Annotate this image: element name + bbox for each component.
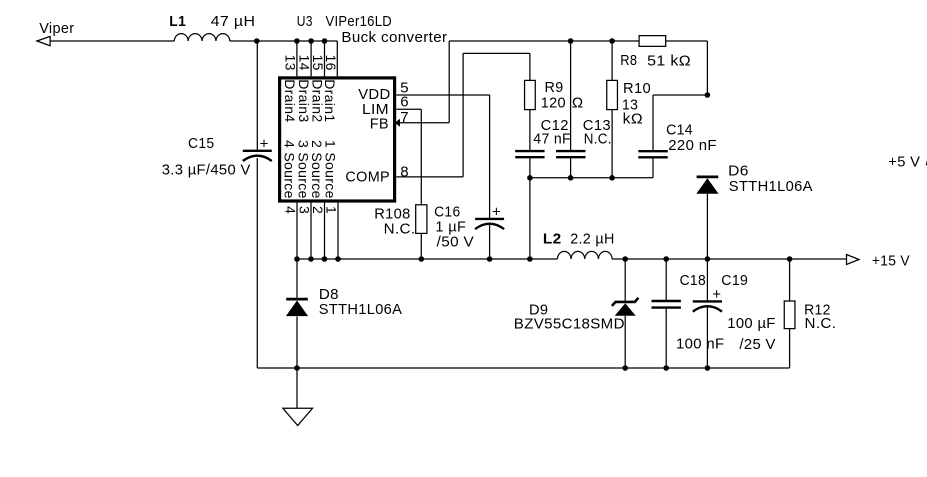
capacitor C13 [556,151,585,157]
svg-text:C18: C18 [680,272,706,289]
node junction C13 tap [568,38,574,44]
label R8 [620,52,637,69]
capacitor C14 [638,151,667,157]
wire pin13 drain4 [296,41,298,76]
svg-text:/25 V: /25 V [739,336,775,353]
label R8 value [647,52,691,69]
label C15 [188,135,214,152]
svg-text:kΩ: kΩ [623,111,643,128]
wire COMP to R9 [529,53,531,80]
resistor R9 [525,80,536,109]
label VIPer16LD [326,13,393,30]
wire drain node down to C15 [256,41,258,150]
wire R108 to source rail [420,233,422,259]
pin name Drain4 [282,79,298,122]
svg-text:D6: D6 [728,163,749,180]
wire D9 to ground rail [624,316,626,368]
wire C18 to ground rail [665,309,667,368]
label R10 [623,80,651,97]
wire LIM down to R108 [420,109,422,205]
label D9 [529,301,548,318]
resistor R12 [784,301,795,329]
label L1 value 47 uH [211,13,256,30]
diode D6 [696,177,718,194]
svg-text:+15 V: +15 V [872,252,910,269]
pin number 4 [283,206,299,214]
svg-text:L2: L2 [543,230,562,247]
wire R12 to ground rail [789,329,791,368]
label C13 N.C. [584,130,612,147]
wire +15V rail [612,258,846,260]
pin number 2 [310,206,326,214]
node junction R10 mid [609,175,615,181]
svg-text:51 kΩ: 51 kΩ [647,52,691,69]
wire C12 to mid rail [529,158,531,178]
wire pin7 FB [396,122,449,124]
wire pin3 source3 [310,203,312,259]
resistor R8 [639,36,666,47]
wire C19 to ground rail [706,307,708,368]
wire D8 to ground rail [296,316,298,368]
capacitor C16 [475,219,504,229]
label +5V arrow fragment [926,160,927,165]
wire C16 to source rail [489,224,491,259]
svg-text:100 nF: 100 nF [676,336,724,353]
svg-text:N.C.: N.C. [805,315,837,332]
op-amp U1 IC body U3 VIPer16LD [280,78,395,201]
pin FB input arrow [395,119,400,127]
svg-text:Drain1: Drain1 [322,79,338,122]
node junction C19 top [705,256,711,262]
wire C19 top lead [706,259,708,301]
node junction drain pin 15 [322,38,328,44]
svg-text:/50 V: /50 V [437,233,474,250]
svg-text:16: 16 [323,55,339,71]
wire VDD down to C16 [489,95,491,219]
node junction source1 [335,256,341,262]
svg-text:100 µF: 100 µF [727,315,775,332]
wire pin2 source2 [324,203,326,259]
label C18 value [676,336,724,353]
svg-text:4 Source: 4 Source [281,140,297,199]
pin name Drain3 [296,79,312,122]
svg-text:R9: R9 [545,79,564,96]
node junction D9 ground [622,365,628,371]
pin name Drain1 [322,79,338,122]
pin number 1 [324,206,340,214]
label L2 value [570,230,615,247]
svg-text:1 Source: 1 Source [322,140,338,199]
label C19 plus polarity [712,286,721,303]
label C16 value 1uF [435,219,466,236]
svg-text:COMP: COMP [345,169,390,186]
capacitor C18 [652,301,681,308]
node junction R10 tap [609,38,615,44]
label D8 part [319,301,402,318]
wire C14 top link [653,94,707,96]
label C18 [680,272,706,289]
svg-text:13: 13 [283,55,299,71]
wire FB node down to C13 [570,41,572,150]
wire down to D6 node [706,41,708,95]
svg-text:47 nF: 47 nF [533,130,571,147]
resistor R108 [416,205,427,234]
svg-text:BZV55C18SMD: BZV55C18SMD [514,316,625,333]
pin number 7 [400,109,409,126]
wire COMP up riser [462,53,464,176]
capacitor C12 [515,151,544,157]
svg-text:+: + [260,135,269,152]
label R10 value 13 [622,96,638,113]
svg-text:STTH1L06A: STTH1L06A [319,301,402,318]
wire R9 to C12 [529,110,531,151]
capacitor C19 [693,301,722,311]
pin number 5 [400,80,409,97]
wire C14 to mid rail [652,158,654,178]
svg-text:STTH1L06A: STTH1L06A [729,178,813,195]
pin name 4 Source [281,140,297,199]
node junction source2 [322,256,328,262]
wire mid rail [530,177,653,179]
label Buck converter [341,29,447,46]
svg-text:4: 4 [283,206,299,214]
resistor R10 [607,80,618,109]
diode D8 [286,299,308,316]
svg-text:R10: R10 [623,80,651,97]
svg-text:R8: R8 [620,52,637,69]
svg-text:2.2 µH: 2.2 µH [570,230,615,247]
label C14 [666,121,693,138]
node junction source4 [294,256,300,262]
svg-text:47 µH: 47 µH [211,13,256,30]
label C19 value 25V [739,336,775,353]
label D6 part [729,178,813,195]
label C16 [434,203,460,220]
pin name 1 Source [322,140,338,199]
diode D9 zener [612,298,639,316]
wire D6 to +15V rail [706,194,708,259]
wire pin4 source4 [296,203,298,259]
pin name Drain2 [309,79,325,122]
svg-text:220 nF: 220 nF [668,137,717,154]
node Viper input arrow [37,36,50,45]
pin number 14 [297,55,313,71]
label C12 [541,117,569,134]
wire C13 to mid rail [570,158,572,178]
ground [283,408,313,425]
node junction D8 ground [294,365,300,371]
pin number 13 [283,55,299,71]
wire L1 to drain pins [230,40,337,42]
label R9 [545,79,564,96]
node junction R108 bottom [419,256,425,262]
node junction D9 top [622,256,628,262]
wire pin15 drain2 [324,41,326,76]
label R12 [804,301,831,318]
pin number 15 [310,55,326,71]
node junction drain pin 14 [308,38,314,44]
node junction drain pin 13 [294,38,300,44]
svg-text:7: 7 [400,109,409,126]
svg-text:3.3 µF/450 V: 3.3 µF/450 V [162,161,251,178]
label D6 [728,163,749,180]
label C19 value 100uF [727,315,775,332]
wire pin6 LIM [396,108,421,110]
wire pin16 drain1 [336,41,338,76]
node junction C18 ground [663,365,669,371]
svg-text:Buck converter: Buck converter [341,29,447,46]
wire pin8 COMP [396,176,463,178]
label R10 value kohm [623,111,643,128]
svg-text:+5 V: +5 V [888,153,920,170]
pin name LIM [362,101,389,118]
node junction C19 ground [705,365,711,371]
wire COMP top run [463,52,530,54]
svg-text:6: 6 [400,94,409,111]
node junction C16 bottom [487,256,493,262]
pin name COMP [345,169,390,186]
wire D9 top lead [624,259,626,302]
label C16 value 50V [437,233,474,250]
label C13 [583,117,611,134]
label D8 [319,286,339,303]
svg-text:+: + [492,204,501,221]
pin number 3 [297,206,313,214]
wire pin5 VDD [396,94,489,96]
wire FB up riser [448,41,450,123]
svg-text:N.C.: N.C. [584,130,612,147]
label C15 value [162,161,251,178]
node junction C18 top [663,256,669,262]
label R108 N.C. [384,221,416,238]
svg-text:C19: C19 [721,272,748,289]
wire ground rail [257,367,789,369]
node junction C15 tap [254,38,260,44]
svg-text:1: 1 [324,206,340,214]
svg-text:VIPer16LD: VIPer16LD [326,13,393,30]
label C16 plus polarity [492,204,501,221]
svg-text:L1: L1 [169,13,186,30]
wire C15 to ground rail [256,158,258,368]
wire FB node down to R10 [611,41,613,80]
label R9 value ohm [572,95,584,112]
wire C18 top lead [665,259,667,300]
label C14 value [668,137,717,154]
svg-text:FB: FB [370,116,389,133]
wire source rail left [297,258,557,260]
label R108 [374,205,410,222]
label L2 [543,230,562,247]
node junction source3 [308,256,314,262]
svg-text:N.C.: N.C. [384,221,416,238]
wire pin1 source1 [337,203,339,259]
pin name 3 Source [295,140,311,199]
pin name VDD [358,86,390,103]
label +15V [872,252,910,269]
pin name 2 Source [309,140,325,199]
inductor L1 [174,34,230,41]
label D9 part [514,316,625,333]
svg-text:8: 8 [400,163,409,180]
label U3 [297,13,313,30]
wire FB top run [449,40,639,42]
svg-text:120: 120 [541,95,566,112]
label C12 value [533,130,571,147]
node +15V output arrow [847,255,860,265]
label L1 [169,13,186,30]
label C15 plus polarity [260,135,269,152]
label C19 [721,272,748,289]
wire pin14 drain3 [310,41,312,76]
wire input to L1 [50,40,174,42]
wire D8 top lead [296,259,298,298]
svg-text:C14: C14 [666,121,693,138]
pin number 8 [400,163,409,180]
wire R10 to mid rail [611,110,613,178]
pin number 16 [323,55,339,71]
node junction C12 mid [527,175,533,181]
wire ground stub [296,368,298,408]
node Viper input label [39,20,74,37]
svg-text:Drain4: Drain4 [282,79,298,122]
pin number 6 [400,94,409,111]
node junction comp net bottom [527,256,533,262]
label R9 value 120 [541,95,566,112]
wire R12 top lead [789,259,791,301]
pin name FB [370,116,389,133]
node junction D6 C14 [705,92,711,98]
svg-text:C15: C15 [188,135,214,152]
wire R8 to corner [666,40,708,42]
label +5V [888,153,920,170]
node junction C13 mid [568,175,574,181]
svg-text:Viper: Viper [39,20,74,37]
svg-text:U3: U3 [297,13,313,30]
capacitor C15 [243,151,272,161]
svg-text:+: + [712,286,721,303]
wire mid rail drop to source rail [529,178,531,259]
wire D6 node down to C14 [652,95,654,150]
svg-text:Ω: Ω [572,95,584,112]
node junction R12 top [787,256,793,262]
label R12 N.C. [805,315,837,332]
inductor L2 [557,251,612,259]
